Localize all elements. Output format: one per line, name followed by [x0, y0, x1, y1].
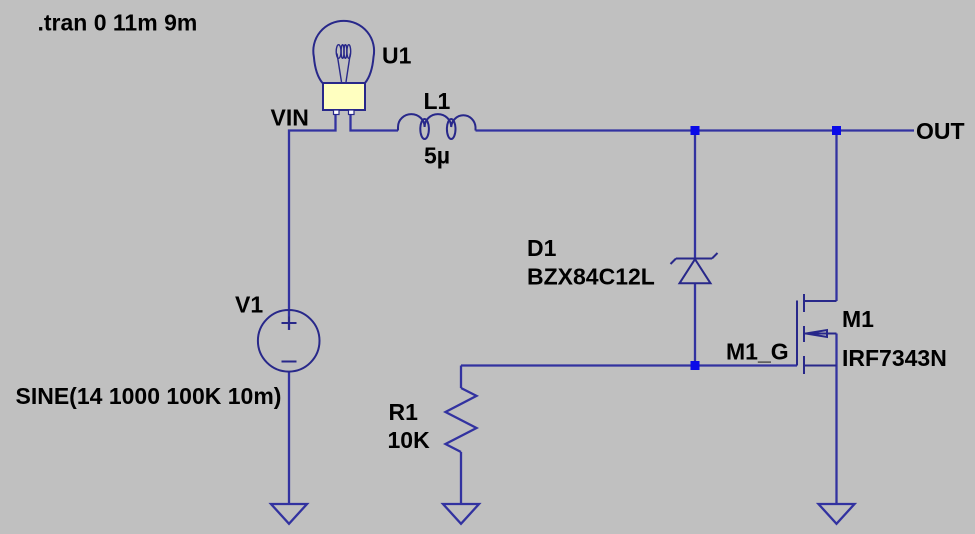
- svg-text:SINE(14 1000 100K 10m): SINE(14 1000 100K 10m): [16, 383, 282, 409]
- svg-text:IRF7343N: IRF7343N: [842, 345, 947, 371]
- svg-text:R1: R1: [389, 399, 419, 425]
- svg-text:D1: D1: [527, 235, 557, 261]
- svg-text:OUT: OUT: [916, 118, 965, 144]
- svg-text:V1: V1: [235, 292, 263, 318]
- svg-text:M1_G: M1_G: [726, 339, 789, 365]
- svg-text:BZX84C12L: BZX84C12L: [527, 264, 655, 290]
- svg-text:5µ: 5µ: [424, 143, 450, 169]
- svg-text:U1: U1: [382, 43, 412, 69]
- svg-text:L1: L1: [424, 88, 451, 114]
- svg-text:VIN: VIN: [271, 105, 309, 131]
- svg-text:M1: M1: [842, 306, 874, 332]
- svg-text:10K: 10K: [388, 427, 431, 453]
- svg-text:.tran 0 11m 9m: .tran 0 11m 9m: [38, 10, 198, 36]
